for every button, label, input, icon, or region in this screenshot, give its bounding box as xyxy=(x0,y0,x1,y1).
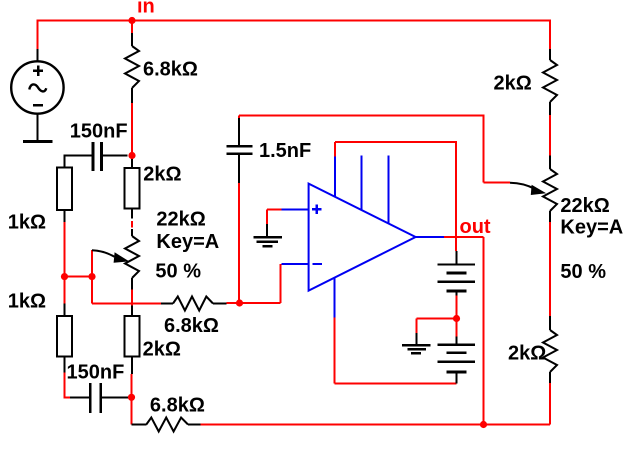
svg-text:Key=A: Key=A xyxy=(560,217,623,239)
svg-text:Key=A: Key=A xyxy=(156,231,219,253)
svg-text:6.8kΩ: 6.8kΩ xyxy=(164,315,219,337)
svg-text:2kΩ: 2kΩ xyxy=(494,73,532,95)
svg-text:1kΩ: 1kΩ xyxy=(8,290,46,312)
svg-text:22kΩ: 22kΩ xyxy=(560,195,609,217)
svg-text:50 %: 50 % xyxy=(155,261,201,283)
svg-text:1.5nF: 1.5nF xyxy=(259,140,311,162)
svg-text:22kΩ: 22kΩ xyxy=(156,209,205,231)
svg-text:6.8kΩ: 6.8kΩ xyxy=(150,395,205,417)
svg-text:1kΩ: 1kΩ xyxy=(8,212,46,234)
svg-text:2kΩ: 2kΩ xyxy=(143,339,181,361)
svg-text:in: in xyxy=(137,0,155,18)
svg-text:150nF: 150nF xyxy=(67,362,125,384)
svg-text:150nF: 150nF xyxy=(70,121,128,143)
svg-text:2kΩ: 2kΩ xyxy=(143,164,181,186)
svg-text:out: out xyxy=(460,216,491,238)
svg-text:2kΩ: 2kΩ xyxy=(508,343,546,365)
svg-text:6.8kΩ: 6.8kΩ xyxy=(143,59,198,81)
svg-text:50 %: 50 % xyxy=(560,261,606,283)
